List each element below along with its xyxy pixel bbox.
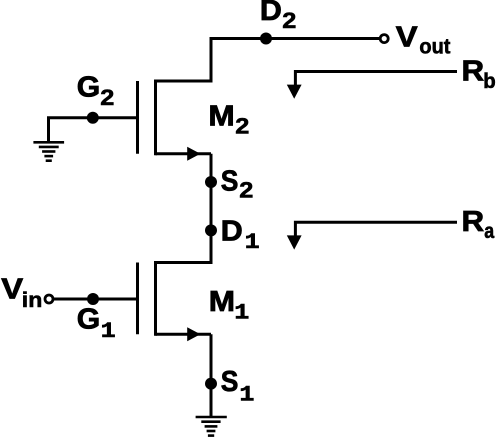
node G2 [87, 112, 99, 124]
label D2_2 [282, 9, 296, 33]
label M1_1 [234, 301, 249, 326]
node G1 [87, 293, 99, 305]
probe Ra bent lead [295, 222, 457, 237]
ground at S1 [196, 417, 227, 436]
svg-text:G: G [77, 303, 100, 335]
label D1_1 [245, 230, 260, 255]
svg-text:1: 1 [245, 230, 260, 255]
label Rb_R [462, 56, 485, 88]
svg-text:M: M [209, 286, 235, 318]
svg-text:in: in [22, 288, 43, 312]
svg-text:b: b [483, 70, 495, 93]
label Ra_a [484, 220, 494, 244]
wire G1 lead from Vin [53, 298, 136, 301]
label G2_G [77, 71, 100, 103]
label Vi_in [22, 288, 43, 312]
label M2_2 [235, 115, 249, 139]
svg-text:S: S [221, 164, 239, 196]
svg-text:G: G [77, 71, 100, 103]
label G1_G [77, 303, 100, 335]
label S2_2 [239, 179, 253, 203]
label S1_1 [239, 383, 254, 408]
terminal Vout [380, 35, 388, 43]
transistor M2 source lead [156, 152, 212, 155]
label S1_S [221, 365, 239, 397]
label Rb_b [483, 70, 495, 93]
svg-text:M: M [208, 101, 234, 133]
svg-text:R: R [462, 206, 485, 238]
probe Rb bent lead [295, 72, 457, 87]
node D1 [205, 224, 217, 236]
svg-text:1: 1 [239, 383, 254, 408]
node S1 [205, 378, 217, 390]
node D2 [260, 33, 272, 45]
label Vo_V [396, 20, 418, 53]
wire S1 to ground [210, 334, 213, 417]
transistor M1 source arrow [187, 327, 200, 341]
label D2_D [260, 0, 282, 27]
label Vo_out [419, 35, 450, 59]
transistor M1 source lead [156, 333, 212, 336]
ground at G2 [33, 142, 64, 160]
svg-text:V: V [1, 272, 23, 305]
label M2_M [208, 101, 234, 133]
svg-text:2: 2 [235, 115, 249, 139]
label Ra_R [462, 206, 485, 238]
svg-text:R: R [462, 56, 485, 88]
svg-text:1: 1 [234, 301, 249, 326]
label G1_1 [101, 319, 116, 344]
probe Ra arrowhead [287, 235, 302, 249]
svg-text:a: a [484, 220, 494, 244]
node S2 [205, 176, 217, 188]
wire drain of M2 to top rail and Vout terminal [156, 39, 381, 82]
svg-text:V: V [396, 20, 418, 53]
transistor M2 channel bar [154, 80, 157, 156]
transistor M1 gate bar [136, 263, 139, 335]
svg-text:2: 2 [282, 9, 296, 33]
label D1_D [221, 215, 243, 247]
svg-text:S: S [221, 365, 239, 397]
svg-text:D: D [260, 0, 282, 27]
svg-text:out: out [419, 35, 450, 59]
transistor M2 gate bar [136, 81, 139, 154]
svg-text:2: 2 [239, 179, 253, 203]
svg-text:D: D [221, 215, 243, 247]
transistor M2 source arrow [187, 147, 200, 161]
label S2_S [221, 164, 239, 196]
label Vi_V [1, 272, 23, 305]
wire S2-D1 trunk [156, 154, 212, 263]
label G2_2 [100, 86, 114, 110]
label M1_M [209, 286, 235, 318]
svg-text:2: 2 [100, 86, 114, 110]
probe Rb arrowhead [287, 85, 302, 99]
svg-text:1: 1 [101, 319, 116, 344]
transistor M1 channel bar [154, 261, 157, 336]
terminal Vin [45, 295, 53, 303]
wire G2 lead with bend to ground [49, 118, 137, 141]
